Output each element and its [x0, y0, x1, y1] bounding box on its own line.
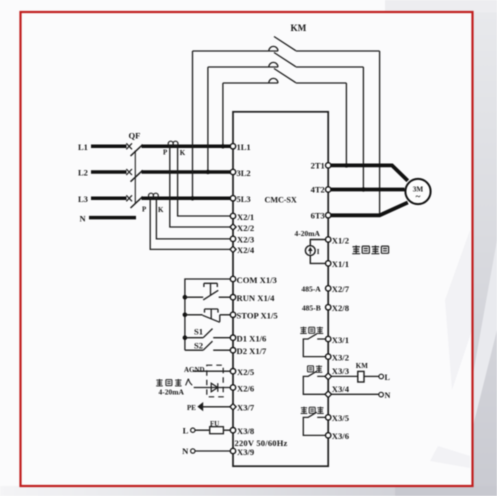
terminal 1L1	[230, 144, 235, 149]
junction on 3L2	[206, 170, 210, 174]
wire 2T1 to motor	[328, 165, 408, 180]
terminal X3/6	[326, 433, 331, 438]
svg-text:CMC-SX: CMC-SX	[265, 196, 297, 205]
label 旁路	[308, 365, 323, 372]
svg-text:5L3: 5L3	[237, 194, 251, 204]
wire L3 input	[91, 197, 127, 201]
terminal 5L3	[230, 196, 235, 201]
svg-text:X3/4: X3/4	[332, 384, 350, 394]
svg-text:N: N	[385, 391, 391, 400]
svg-text:X3/3: X3/3	[332, 366, 349, 376]
wire N input	[89, 216, 136, 220]
wire X3/4 to N	[332, 393, 379, 395]
relay contact X3/3-X3/4 (bypass)	[303, 371, 325, 394]
wire CT L1 K to X2/1	[178, 146, 233, 216]
svg-text:D2 X1/7: D2 X1/7	[237, 346, 268, 356]
KM contact 3	[223, 69, 347, 84]
svg-text:QF: QF	[129, 130, 141, 140]
wire L2 input	[91, 170, 127, 174]
wire KM3 to 2T1	[345, 83, 347, 165]
svg-text:4-20mA: 4-20mA	[295, 229, 321, 238]
svg-text:1L1: 1L1	[237, 142, 251, 152]
wire CT L3 K to X2/3	[156, 198, 233, 239]
svg-text:S1: S1	[194, 327, 203, 337]
wire CT L3 P to X2/4	[150, 198, 233, 249]
svg-text:AGND: AGND	[184, 366, 205, 374]
terminal X3/2	[326, 354, 331, 359]
analog input dashed box	[207, 365, 223, 397]
terminal COM X1/3	[230, 276, 235, 281]
terminal 6T3	[326, 213, 331, 218]
svg-text:L1: L1	[78, 142, 88, 152]
wire CT L1 P to X2/2	[170, 146, 233, 227]
svg-text:RUN X1/4: RUN X1/4	[237, 293, 276, 303]
breaker QF pole 2	[126, 169, 142, 182]
terminal X3/5	[326, 415, 331, 420]
svg-text:485-A: 485-A	[301, 285, 321, 294]
wire KM1 to 6T3	[379, 51, 381, 215]
wire analog to X2/6	[194, 387, 233, 389]
svg-text:X1/2: X1/2	[332, 235, 349, 245]
diode symbol in analog box	[211, 383, 218, 392]
label 可编程 (2)	[301, 407, 324, 414]
terminal X3/3	[325, 373, 332, 380]
svg-text:4-20mA: 4-20mA	[159, 387, 185, 396]
breaker QF pole 1	[126, 143, 142, 156]
svg-text:KM: KM	[291, 23, 307, 33]
svg-text:L3: L3	[78, 194, 88, 204]
junction on 1L1	[221, 144, 225, 148]
svg-text:X3/8: X3/8	[237, 426, 255, 436]
switch S1	[185, 329, 233, 338]
terminal X2/1	[230, 213, 235, 218]
relay contact X3/5-X3/6 (programmable)	[303, 412, 325, 435]
svg-text:KM: KM	[356, 362, 368, 370]
terminal 2T1	[326, 163, 331, 168]
svg-text:P: P	[163, 149, 168, 157]
control bus from COM	[185, 279, 233, 350]
junction on 5L3	[190, 196, 194, 200]
terminal X2/3	[230, 236, 235, 241]
svg-text:3L2: 3L2	[237, 168, 251, 178]
wire AGND to X2/5	[193, 370, 233, 372]
wire N to X3/9	[195, 450, 233, 452]
terminal X2/6	[230, 385, 235, 390]
svg-text:X2/2: X2/2	[237, 223, 254, 233]
terminal X3/7	[230, 404, 236, 410]
label 模拟输出	[352, 245, 388, 253]
terminal STOP X1/5	[230, 312, 235, 317]
svg-text:N: N	[80, 213, 87, 223]
junction on 2T1	[344, 163, 348, 167]
label 可编程 (1)	[300, 327, 323, 334]
svg-text:P: P	[142, 206, 147, 214]
svg-text:X2/8: X2/8	[332, 303, 350, 313]
svg-text:X2/5: X2/5	[237, 367, 254, 377]
svg-text:X3/9: X3/9	[237, 447, 254, 457]
motor 3M	[405, 179, 430, 204]
CT on L3 (P,K)	[149, 193, 159, 198]
svg-text:N: N	[182, 446, 189, 456]
wire KM2 to 4T2	[362, 67, 364, 190]
svg-text:X2/6: X2/6	[237, 383, 255, 393]
breaker QF linkage	[134, 151, 136, 204]
terminal D2 X1/7	[230, 348, 235, 353]
bottom grey strip	[0, 486, 497, 496]
wire L1 to 1L1	[142, 145, 234, 149]
label 模拟输入	[156, 379, 192, 386]
terminal X3/9	[230, 448, 235, 453]
svg-text:K: K	[158, 206, 164, 214]
svg-text:X2/7: X2/7	[332, 284, 350, 294]
svg-text:D1 X1/6: D1 X1/6	[237, 334, 268, 344]
top-right grey band	[385, 0, 497, 13]
terminal 3L2	[230, 169, 235, 174]
PE arrow	[197, 402, 203, 411]
svg-text:COM X1/3: COM X1/3	[237, 275, 277, 285]
terminal X3/4	[325, 391, 332, 398]
svg-text:X2/3: X2/3	[237, 235, 254, 245]
CT on L1 (P,K)	[168, 141, 178, 146]
svg-text:~: ~	[416, 192, 421, 202]
right grey strip	[472, 0, 497, 496]
svg-text:X3/7: X3/7	[237, 403, 255, 413]
terminal X1/1	[326, 261, 331, 266]
wire KM3 to 1L1	[222, 83, 224, 146]
analog output current source	[305, 240, 328, 264]
svg-text:X1/1: X1/1	[332, 259, 349, 269]
svg-text:L: L	[183, 425, 189, 435]
pushbutton STOP (NC)	[185, 309, 233, 322]
main unit box CMC-SX	[233, 112, 328, 466]
terminal X2/8	[326, 305, 331, 310]
svg-text:PE: PE	[187, 404, 196, 412]
wire L2 to 3L2	[142, 170, 234, 174]
svg-text:S2: S2	[194, 340, 203, 350]
fuse FU	[210, 427, 224, 434]
terminal X2/4	[230, 246, 236, 252]
svg-text:485-B: 485-B	[302, 304, 321, 313]
pushbutton RUN (start, NO)	[185, 283, 233, 300]
KM contact 2	[208, 53, 364, 68]
junction STOP row	[183, 313, 188, 318]
wire PE to X3/7	[203, 406, 233, 408]
svg-text:L2: L2	[78, 168, 88, 178]
terminal RUN X1/4	[230, 295, 235, 300]
terminal X2/5	[230, 369, 235, 374]
node N (coil)	[379, 392, 384, 397]
relay contact X3/1-X3/2 (programmable)	[303, 334, 325, 357]
svg-text:X3/6: X3/6	[332, 431, 350, 441]
wire L1 input	[91, 145, 127, 149]
junction RUN row	[183, 295, 188, 300]
terminal X2/7	[326, 286, 331, 291]
wire 4T2 to motor	[328, 188, 404, 192]
junction D1 row	[183, 335, 188, 340]
svg-text:X3/1: X3/1	[332, 335, 349, 345]
svg-text:6T3: 6T3	[311, 211, 325, 221]
svg-text:X2/1: X2/1	[237, 212, 254, 222]
breaker QF pole 3	[126, 195, 142, 208]
wire L3 to 5L3	[142, 197, 234, 201]
svg-text:X2/4: X2/4	[237, 245, 255, 255]
terminal X1/2	[326, 237, 331, 242]
svg-text:X3/5: X3/5	[332, 413, 349, 423]
terminal X2/2	[230, 224, 236, 230]
terminal X3/8	[230, 428, 235, 433]
wire X3/3 to KM coil	[332, 375, 358, 377]
junction on 4T2	[361, 187, 365, 191]
terminal D1 X1/6	[230, 335, 235, 340]
wire 6T3 to motor	[328, 203, 408, 216]
svg-text:I: I	[317, 248, 320, 256]
svg-text:K: K	[180, 149, 186, 157]
svg-text:2T1: 2T1	[311, 161, 325, 171]
switch S2	[185, 341, 233, 350]
wire KM2 to 3L2	[207, 67, 209, 172]
svg-text:L: L	[385, 373, 391, 382]
KM contact 1	[193, 37, 380, 52]
svg-text:4T2: 4T2	[311, 185, 325, 195]
wire KM coil to L	[364, 375, 379, 377]
faint inner watermark	[445, 230, 472, 390]
terminal X3/1	[326, 336, 331, 341]
KM coil	[358, 371, 364, 382]
wire L to X3/8	[195, 429, 233, 431]
terminal 4T2	[326, 187, 331, 192]
svg-text:X3/2: X3/2	[332, 352, 349, 362]
node L (coil)	[379, 374, 384, 379]
svg-text:STOP X1/5: STOP X1/5	[237, 311, 278, 321]
wire KM1 to 5L3	[192, 51, 194, 198]
